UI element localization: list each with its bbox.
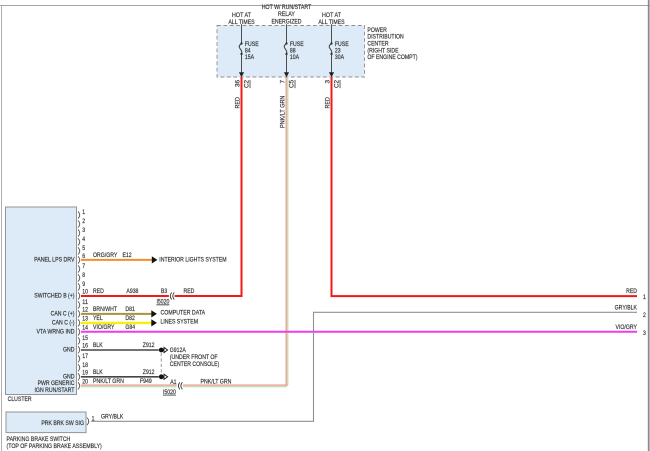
svg-text:HOT W/ RUN/START: HOT W/ RUN/START bbox=[262, 4, 312, 11]
svg-text:LINES SYSTEM: LINES SYSTEM bbox=[161, 319, 198, 326]
cluster pin 2 bbox=[78, 219, 86, 228]
wire BLK Z912 from cluster pin 16 to ground G912A bbox=[81, 342, 159, 350]
svg-text:C5: C5 bbox=[289, 79, 296, 88]
svg-text:Z912: Z912 bbox=[143, 342, 155, 349]
svg-text:HOT AT: HOT AT bbox=[322, 12, 341, 19]
svg-text:11: 11 bbox=[82, 300, 88, 306]
wire ORG/GRY E12 from cluster pin 6 to interior lights system bbox=[81, 252, 152, 260]
svg-text:VIO/GRY: VIO/GRY bbox=[616, 324, 638, 331]
wire BLK Z912 from cluster pin 19 to ground G912A bbox=[81, 369, 159, 377]
svg-text:YEL: YEL bbox=[93, 315, 103, 322]
cluster pin 11 bbox=[78, 300, 89, 309]
svg-text:E12: E12 bbox=[123, 252, 133, 259]
fuse 88 (10A) inside PDC with feed wire and down-arrow bbox=[284, 24, 304, 77]
svg-text:OF ENGINE COMPT): OF ENGINE COMPT) bbox=[367, 54, 417, 61]
svg-text:19: 19 bbox=[82, 371, 88, 377]
ground G912A symbol (pin 16) bbox=[159, 347, 168, 352]
power distribution center (PDC) box bbox=[217, 26, 365, 78]
connector A1 of I5020 bbox=[163, 379, 182, 396]
PDC output pin 36, connector C2 (rotated labels) bbox=[235, 79, 251, 88]
svg-text:CLUSTER: CLUSTER bbox=[8, 396, 32, 403]
wire RED from fuse 84 down to cluster B(+) feed row bbox=[241, 77, 243, 297]
svg-text:A938: A938 bbox=[126, 288, 138, 295]
wire VIO/GRY G84 from cluster pin 14 across to page edge circuit 3 bbox=[81, 324, 637, 332]
svg-text:B3: B3 bbox=[161, 288, 168, 295]
svg-text:10A: 10A bbox=[290, 54, 300, 61]
cluster pin 15 bbox=[78, 336, 89, 345]
cluster pin 14 bbox=[78, 326, 89, 336]
cluster pin 18 bbox=[78, 363, 89, 372]
cluster pin 8 bbox=[78, 273, 86, 282]
svg-text:RED: RED bbox=[93, 288, 104, 295]
parking brake switch box bbox=[6, 412, 86, 433]
net HOT W/ RUN/START RELAY ENERGIZED (feeds fuse 88) bbox=[262, 4, 312, 26]
wire RED horizontal segment into cluster pin 10 splice bbox=[175, 295, 243, 297]
svg-text:C2: C2 bbox=[244, 79, 251, 88]
svg-text:1: 1 bbox=[643, 294, 646, 301]
svg-text:C2: C2 bbox=[334, 79, 341, 88]
cluster pin 10 bbox=[78, 290, 89, 300]
svg-text:17: 17 bbox=[82, 354, 88, 360]
svg-text:16: 16 bbox=[82, 344, 88, 350]
PDC output pin 7, connector C5 (rotated labels) bbox=[280, 79, 296, 88]
wire BRN/WHT D81 from cluster pin 12 to computer data lines bbox=[81, 306, 152, 314]
PDC output pin 3, connector C2 (rotated labels) bbox=[325, 79, 341, 88]
svg-text:PNK/LT GRN: PNK/LT GRN bbox=[93, 378, 124, 385]
cluster pin 4 bbox=[78, 237, 86, 246]
svg-text:PNK/LT GRN: PNK/LT GRN bbox=[201, 379, 232, 386]
svg-text:2: 2 bbox=[643, 312, 646, 319]
svg-text:18: 18 bbox=[82, 363, 88, 369]
cluster pin 16 bbox=[78, 344, 89, 354]
cluster pin 9 bbox=[78, 282, 86, 291]
dashed link between ground points bbox=[160, 353, 162, 374]
fuse 84 (15A) inside PDC with feed wire and down-arrow bbox=[239, 24, 259, 77]
svg-text:12: 12 bbox=[82, 308, 88, 314]
svg-text:2: 2 bbox=[82, 219, 85, 225]
cluster pin 20 function label PWR GENERIC IGN RUN/START bbox=[34, 380, 74, 394]
svg-text:RED: RED bbox=[626, 288, 637, 295]
svg-text:GRY/BLK: GRY/BLK bbox=[615, 304, 638, 311]
cluster pin 7 bbox=[78, 264, 86, 273]
svg-text:(TOP OF PARKING BRAKE ASSEMBLY: (TOP OF PARKING BRAKE ASSEMBLY) bbox=[7, 443, 102, 450]
svg-text:G84: G84 bbox=[125, 324, 135, 331]
wire PNK/LT GRN from fuse 88 down then left to connector A1 (two-tone) bbox=[183, 77, 288, 386]
svg-text:D82: D82 bbox=[125, 315, 135, 322]
wire RED A938 from cluster pin 10 to splice connector B3 bbox=[81, 288, 169, 296]
cluster pin 20 bbox=[78, 380, 89, 390]
parking brake switch pin 1 bbox=[87, 417, 95, 426]
label COMPUTER DATA LINES SYSTEM bbox=[161, 310, 206, 326]
svg-text:RED: RED bbox=[184, 288, 195, 295]
svg-text:8: 8 bbox=[82, 273, 85, 279]
svg-text:RELAY: RELAY bbox=[278, 11, 295, 18]
wire GRY/BLK from parking brake switch up and right to page edge circuit 2 bbox=[91, 312, 637, 421]
svg-text:15A: 15A bbox=[245, 54, 255, 61]
svg-text:SWITCHED B (+): SWITCHED B (+) bbox=[34, 293, 74, 300]
svg-text:(UNDER FRONT OF: (UNDER FRONT OF bbox=[170, 354, 218, 361]
svg-text:14: 14 bbox=[82, 326, 88, 332]
svg-text:PWR GENERIC: PWR GENERIC bbox=[38, 380, 75, 387]
svg-text:INTERIOR LIGHTS SYSTEM: INTERIOR LIGHTS SYSTEM bbox=[159, 257, 226, 264]
cluster pin 19 bbox=[78, 371, 89, 381]
svg-text:CAN C (+): CAN C (+) bbox=[51, 310, 75, 317]
svg-text:BLK: BLK bbox=[93, 369, 103, 376]
cluster pin 5 bbox=[78, 246, 86, 255]
svg-text:15: 15 bbox=[82, 336, 88, 342]
fuse 23 (30A) inside PDC with feed wire and down-arrow bbox=[329, 24, 349, 77]
connector B3 of I5020 bbox=[157, 288, 175, 306]
svg-text:PANEL LPS DRV: PANEL LPS DRV bbox=[34, 257, 75, 264]
svg-text:F949: F949 bbox=[140, 378, 152, 385]
svg-text:PRK BRK SW SIG: PRK BRK SW SIG bbox=[41, 420, 84, 427]
svg-text:BRN/WHT: BRN/WHT bbox=[93, 306, 117, 313]
arrow to interior lights system bbox=[152, 256, 158, 263]
wire PNK/LT GRN F949 from cluster pin 20 to connector A1 bbox=[81, 378, 177, 387]
svg-text:PARKING BRAKE SWITCH: PARKING BRAKE SWITCH bbox=[7, 436, 71, 443]
svg-text:7: 7 bbox=[82, 264, 85, 270]
svg-text:HOT AT: HOT AT bbox=[232, 12, 251, 19]
label G912A (UNDER FRONT OF CENTER CONSOLE) bbox=[170, 347, 220, 368]
svg-text:VIO/GRY: VIO/GRY bbox=[93, 324, 115, 331]
svg-text:D81: D81 bbox=[125, 306, 135, 313]
wire RED from fuse 23 down then right to page edge circuit 1 bbox=[332, 77, 638, 296]
svg-text:3: 3 bbox=[643, 330, 646, 337]
svg-text:3: 3 bbox=[82, 228, 85, 234]
cluster pin 1 bbox=[78, 210, 86, 219]
svg-text:BLK: BLK bbox=[93, 342, 103, 349]
svg-text:GRY/BLK: GRY/BLK bbox=[101, 413, 124, 420]
cluster module box bbox=[6, 207, 77, 395]
wire YEL D82 from cluster pin 13 to computer data lines bbox=[81, 315, 152, 323]
svg-text:9: 9 bbox=[82, 282, 85, 288]
svg-text:1: 1 bbox=[82, 210, 85, 216]
svg-text:6: 6 bbox=[82, 254, 85, 260]
svg-text:GND: GND bbox=[63, 346, 75, 353]
PDC name label bbox=[367, 27, 417, 61]
arrow to computer data lines system (CAN C +) bbox=[151, 310, 157, 317]
cluster pin 17 bbox=[78, 354, 89, 363]
svg-text:5: 5 bbox=[82, 246, 85, 252]
cluster pin 13 bbox=[78, 317, 89, 327]
svg-text:30A: 30A bbox=[335, 54, 345, 61]
svg-text:CENTER CONSOLE): CENTER CONSOLE) bbox=[170, 361, 220, 368]
cluster pin 12 bbox=[78, 308, 89, 318]
svg-text:CAN C (-): CAN C (-) bbox=[52, 319, 75, 326]
cluster pin 3 bbox=[78, 228, 86, 237]
net HOT AT ALL TIMES (feeds fuse 84) bbox=[228, 12, 254, 26]
svg-text:ORG/GRY: ORG/GRY bbox=[93, 252, 118, 259]
svg-text:COMPUTER DATA: COMPUTER DATA bbox=[161, 310, 206, 317]
ground G912A symbol (pin 19) bbox=[159, 374, 168, 379]
svg-text:G912A: G912A bbox=[170, 347, 187, 354]
svg-text:VTA WRNG IND: VTA WRNG IND bbox=[36, 328, 74, 335]
svg-text:Z912: Z912 bbox=[143, 369, 155, 376]
net HOT AT ALL TIMES (feeds fuse 23) bbox=[318, 12, 344, 26]
svg-text:4: 4 bbox=[82, 237, 85, 243]
svg-text:10: 10 bbox=[82, 290, 88, 296]
svg-text:I5020: I5020 bbox=[157, 299, 170, 306]
arrow to computer data lines system (CAN C -) bbox=[151, 319, 157, 326]
parking brake switch name label bbox=[7, 436, 102, 450]
cluster pin 6 bbox=[78, 254, 86, 264]
svg-text:IGN RUN/START: IGN RUN/START bbox=[34, 387, 74, 394]
svg-text:I5020: I5020 bbox=[163, 389, 176, 396]
svg-text:A1: A1 bbox=[170, 379, 177, 386]
